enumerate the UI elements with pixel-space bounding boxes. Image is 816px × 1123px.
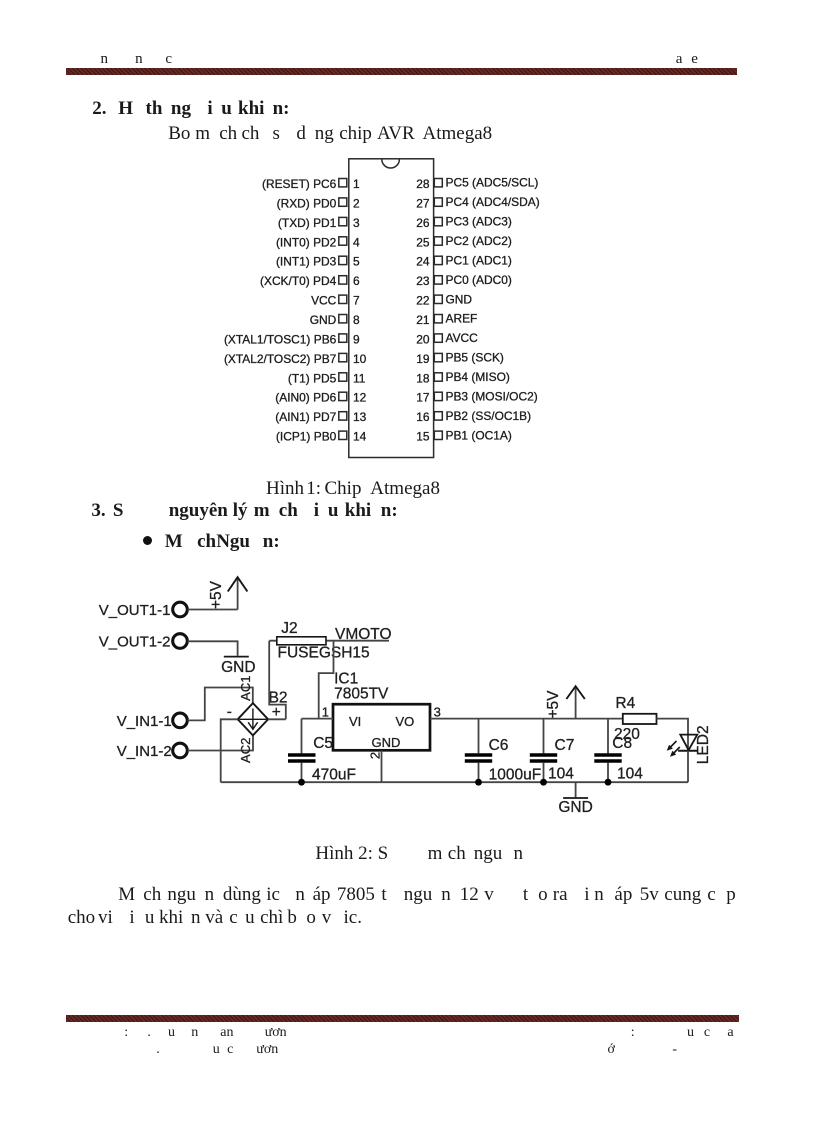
pin 14 (ICP1) PB0 (276, 430, 367, 444)
svg-text:PC3 (ADC3): PC3 (ADC3) (446, 215, 512, 229)
svg-text:17: 17 (416, 391, 430, 405)
svg-text:7: 7 (353, 294, 360, 308)
svg-text:12: 12 (353, 391, 367, 405)
svg-text:104: 104 (548, 766, 574, 783)
connector V_OUT1-2 (99, 633, 188, 650)
connector V_IN1-2 (117, 743, 188, 760)
pin 25 PC2 (ADC2) (416, 234, 512, 249)
svg-text:26: 26 (416, 216, 430, 230)
svg-text:V_IN1-1: V_IN1-1 (117, 713, 172, 730)
svg-text:1000uF: 1000uF (489, 767, 542, 784)
svg-text:3: 3 (434, 704, 441, 719)
svg-text:3: 3 (353, 216, 360, 230)
heading 2 (0, 98, 816, 100)
bridge rectifier B2 (227, 690, 288, 736)
svg-text:5: 5 (353, 255, 360, 269)
svg-text:PB4 (MISO): PB4 (MISO) (446, 370, 510, 384)
svg-text:9: 9 (353, 332, 360, 346)
pin 17 PB3 (MOSI/OC2) (416, 389, 538, 404)
capacitor C7 104 (530, 719, 575, 783)
svg-text:V_IN1-2: V_IN1-2 (117, 743, 172, 760)
pin 24 PC1 (ADC1) (416, 253, 512, 268)
pin 11 (T1) PD5 (288, 371, 366, 385)
junction C6 (475, 779, 482, 786)
wire pin1 to C5 (302, 718, 334, 720)
wire V_IN1-2 to bridge AC2 (188, 735, 253, 750)
wire bridge minus to ground rail (221, 719, 238, 782)
svg-text:4: 4 (353, 235, 360, 249)
svg-text:FUSEGSH15: FUSEGSH15 (278, 645, 370, 662)
svg-text:PC5 (ADC5/SCL): PC5 (ADC5/SCL) (446, 176, 539, 190)
pin 6 (XCK/T0) PD4 (260, 274, 360, 288)
svg-text:AC2: AC2 (238, 738, 253, 763)
wire V_IN1-1 to bridge AC1 (188, 688, 253, 721)
svg-text:(RESET) PC6: (RESET) PC6 (262, 177, 337, 191)
heading 3 (0, 500, 816, 502)
connector V_IN1-1 (117, 713, 188, 730)
pin 3 (TXD) PD1 (278, 216, 360, 230)
svg-text:27: 27 (416, 196, 430, 210)
svg-text:V_OUT1-2: V_OUT1-2 (99, 633, 171, 650)
svg-text:21: 21 (416, 313, 430, 327)
capacitor C8 104 (594, 719, 643, 783)
svg-text:16: 16 (416, 410, 430, 424)
pin 27 PC4 (ADC4/SDA) (416, 195, 540, 210)
svg-text:PC2 (ADC2): PC2 (ADC2) (446, 234, 512, 248)
junction C7 (540, 779, 547, 786)
svg-text:(AIN0) PD6: (AIN0) PD6 (275, 391, 336, 405)
caption figure 2 (0, 843, 816, 845)
pin 8 GND (310, 313, 360, 327)
svg-text:22: 22 (416, 294, 430, 308)
pin 5 (INT1) PD3 (276, 255, 360, 269)
pin 21 AREF (416, 312, 477, 327)
svg-text:+5V: +5V (545, 690, 562, 719)
pin 4 (INT0) PD2 (276, 235, 360, 249)
svg-text:PC1 (ADC1): PC1 (ADC1) (446, 253, 512, 267)
svg-text:J2: J2 (281, 620, 297, 637)
pin 20 AVCC (416, 331, 478, 346)
svg-text:(XTAL2/TOSC2) PB7: (XTAL2/TOSC2) PB7 (224, 352, 337, 366)
svg-text:GND: GND (446, 292, 473, 306)
pin 12 (AIN0) PD6 (275, 391, 366, 405)
junction C8 (605, 779, 612, 786)
svg-text:LED2: LED2 (695, 725, 712, 764)
svg-text:PC4 (ADC4/SDA): PC4 (ADC4/SDA) (446, 195, 540, 209)
wire V_OUT1-2 to GND (188, 641, 238, 656)
pin 18 PB4 (MISO) (416, 370, 510, 385)
header left text (0, 51, 816, 53)
svg-text:C6: C6 (489, 737, 509, 754)
svg-text:PB5 (SCK): PB5 (SCK) (446, 351, 504, 365)
svg-text:-: - (227, 704, 232, 721)
junction C5 (298, 779, 305, 786)
svg-text:11: 11 (353, 371, 366, 385)
LED LED2 (667, 725, 712, 764)
svg-text:GND: GND (558, 799, 592, 816)
footer rule (66, 1015, 739, 1022)
wire V_OUT1-1 to +5V (188, 609, 238, 611)
svg-text:(INT1) PD3: (INT1) PD3 (276, 255, 337, 269)
wire pin2 to ground rail (381, 750, 383, 782)
svg-text:20: 20 (416, 332, 430, 346)
svg-text:13: 13 (353, 410, 367, 424)
IC1 7805TV voltage regulator (333, 670, 430, 750)
svg-text:14: 14 (353, 430, 367, 444)
footer line 2 (0, 1042, 816, 1044)
IC body Atmega8 DIP-28 (349, 159, 434, 458)
pin 28 PC5 (ADC5/SCL) (416, 176, 538, 191)
svg-text:28: 28 (416, 177, 430, 191)
svg-text:470uF: 470uF (312, 767, 356, 784)
pin 7 VCC (311, 294, 360, 308)
wire bridge plus loop to fuse (268, 641, 286, 720)
pin 23 PC0 (ADC0) (416, 273, 512, 288)
svg-text:PB3 (MOSI/OC2): PB3 (MOSI/OC2) (446, 389, 538, 403)
svg-text:10: 10 (353, 352, 367, 366)
svg-text:15: 15 (416, 430, 430, 444)
svg-text:(AIN1) PD7: (AIN1) PD7 (275, 410, 336, 424)
paragraph line 1 (0, 884, 816, 886)
svg-text:(INT0) PD2: (INT0) PD2 (276, 235, 337, 249)
svg-text:V_OUT1-1: V_OUT1-1 (99, 602, 171, 619)
power +5V (left) (208, 577, 247, 609)
svg-text:2: 2 (353, 196, 360, 210)
paragraph line 2 (0, 907, 816, 909)
pin 22 GND (416, 292, 472, 307)
pin 16 PB2 (SS/OC1B) (416, 409, 531, 424)
svg-text:24: 24 (416, 255, 430, 269)
ground rail wire (221, 781, 688, 783)
pin 1 (RESET) PC6 (262, 177, 360, 191)
svg-text:AVCC: AVCC (446, 331, 479, 345)
svg-text:19: 19 (416, 352, 430, 366)
power +5V (right) (545, 686, 585, 718)
svg-text:C7: C7 (555, 737, 575, 754)
bullet line (0, 531, 816, 533)
svg-text:(XCK/T0) PD4: (XCK/T0) PD4 (260, 274, 337, 288)
ground GND (left) (221, 657, 255, 677)
svg-text:GND: GND (372, 735, 401, 750)
wire pin3 output to R4 (430, 718, 623, 720)
svg-text:VO: VO (396, 714, 415, 729)
svg-text:(TXD) PD1: (TXD) PD1 (278, 216, 337, 230)
list bullet (143, 536, 152, 545)
resistor R4 220 (614, 695, 657, 743)
ground GND (bottom) (558, 782, 592, 816)
svg-text:VCC: VCC (311, 294, 337, 308)
svg-text:AC1: AC1 (238, 676, 253, 701)
header rule (66, 68, 737, 75)
connector V_OUT1-1 (99, 602, 188, 619)
svg-text:R4: R4 (615, 695, 635, 712)
svg-text:VMOTO: VMOTO (335, 626, 392, 643)
svg-text:VI: VI (349, 714, 361, 729)
svg-text:8: 8 (353, 313, 360, 327)
body line: Bo mach chu (0, 123, 816, 125)
svg-text:18: 18 (416, 371, 430, 385)
pin 2 (RXD) PD0 (277, 196, 360, 210)
svg-text:C5: C5 (313, 735, 333, 752)
svg-text:104: 104 (617, 766, 643, 783)
svg-text:6: 6 (353, 274, 360, 288)
svg-text:7805TV: 7805TV (334, 686, 389, 703)
svg-text:1: 1 (322, 704, 329, 719)
wire fuse to VMOTO (269, 640, 389, 642)
pin 10 (XTAL2/TOSC2) PB7 (224, 352, 367, 366)
pin 13 (AIN1) PD7 (275, 410, 366, 424)
svg-text:GND: GND (221, 659, 255, 676)
wire R4 to LED2 (657, 719, 689, 751)
svg-text:1: 1 (353, 177, 360, 191)
svg-text:PC0 (ADC0): PC0 (ADC0) (446, 273, 512, 287)
svg-text:(T1) PD5: (T1) PD5 (288, 371, 337, 385)
fuse J2 FUSEGSH15 (277, 620, 370, 661)
svg-text:GND: GND (310, 313, 337, 327)
svg-text:+5V: +5V (208, 580, 225, 609)
pin 9 (XTAL1/TOSC1) PB6 (224, 332, 360, 346)
svg-text:25: 25 (416, 235, 430, 249)
capacitor C6 1000uF (465, 719, 541, 784)
wire LED2 to ground rail (687, 751, 689, 782)
pin 26 PC3 (ADC3) (416, 215, 512, 230)
footer line 1 (0, 1025, 816, 1027)
caption figure 1 (0, 478, 816, 480)
svg-text:220: 220 (614, 726, 640, 743)
svg-text:AREF: AREF (446, 312, 478, 326)
svg-text:23: 23 (416, 274, 430, 288)
svg-text:(RXD) PD0: (RXD) PD0 (277, 196, 337, 210)
pin 15 PB1 (OC1A) (416, 428, 512, 443)
svg-text:PB2 (SS/OC1B): PB2 (SS/OC1B) (446, 409, 532, 423)
wire VMOTO drop to IC1 input (319, 641, 334, 719)
svg-text:(ICP1) PB0: (ICP1) PB0 (276, 430, 337, 444)
svg-text:2: 2 (368, 752, 383, 759)
svg-text:PB1 (OC1A): PB1 (OC1A) (446, 428, 512, 442)
pin 19 PB5 (SCK) (416, 351, 504, 366)
svg-text:(XTAL1/TOSC1) PB6: (XTAL1/TOSC1) PB6 (224, 332, 337, 346)
capacitor C5 470uF (288, 719, 356, 784)
